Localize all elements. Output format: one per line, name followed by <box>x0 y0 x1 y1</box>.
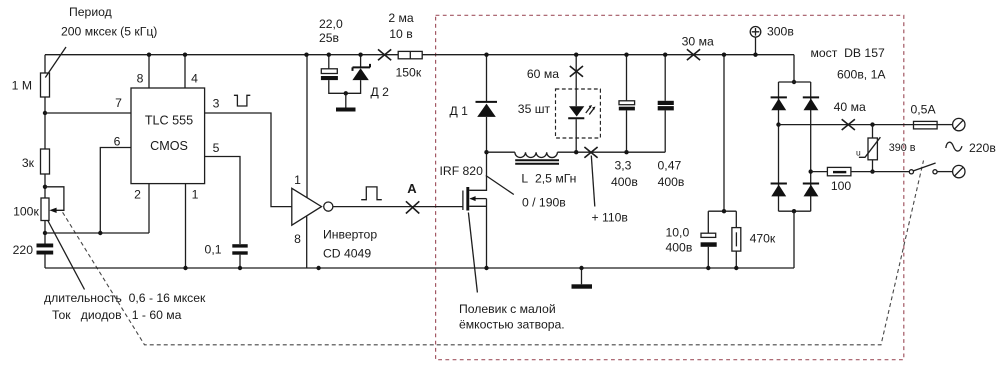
svg-text:3,3: 3,3 <box>615 159 632 173</box>
svg-text:22,0: 22,0 <box>319 17 343 31</box>
svg-text:4: 4 <box>191 72 198 86</box>
wire pin 1 to ground rail <box>185 184 187 268</box>
node varistor bottom <box>870 169 874 173</box>
node pin4 rail junction <box>183 53 187 57</box>
svg-text:6: 6 <box>114 135 121 149</box>
channel bar <box>466 187 469 211</box>
svg-text:TLC 555: TLC 555 <box>145 113 193 127</box>
LED block dashed box <box>556 89 601 138</box>
inverter output bubble <box>324 202 333 211</box>
zener diode D2 <box>360 55 362 68</box>
annotation line 0/190v <box>486 176 514 195</box>
svg-text:8: 8 <box>137 72 144 86</box>
node LED bottom junction <box>574 150 578 154</box>
svg-text:ёмкостью затвора.: ёмкостью затвора. <box>459 318 565 332</box>
svg-text:1: 1 <box>192 188 199 202</box>
wire bridge bottom to ground rail <box>793 211 795 268</box>
resistor R 1M <box>41 73 50 97</box>
wire left branch upper <box>44 55 46 244</box>
node wiper junction <box>43 185 47 189</box>
svg-text:1: 1 <box>294 173 301 187</box>
potentiometer wiper arrowhead <box>49 208 56 213</box>
ground symbol low-voltage <box>345 93 347 107</box>
annotation line +110v <box>591 156 595 207</box>
varistor RU 390v <box>872 125 874 138</box>
X marker node A <box>406 201 419 213</box>
resistor R 470k <box>735 211 737 227</box>
gate bar <box>462 191 464 211</box>
wire lower AC line left <box>811 171 828 173</box>
svg-text:Д 2: Д 2 <box>371 85 390 99</box>
RC snubber branch <box>723 55 725 212</box>
svg-text:100: 100 <box>831 179 852 193</box>
svg-text:2 ма: 2 ма <box>388 11 414 25</box>
node D2/C22 junction <box>344 91 348 95</box>
svg-text:200 мксек (5 кГц): 200 мксек (5 кГц) <box>61 25 157 39</box>
X marker 30ma <box>687 49 700 60</box>
node bridge ac left <box>776 122 780 126</box>
svg-text:35 шт: 35 шт <box>518 102 551 116</box>
svg-text:Полевик с малой: Полевик с малой <box>459 302 556 316</box>
dashed mechanical linkage pot-to-switch <box>63 161 924 345</box>
fuse F1 0,5A <box>914 121 938 128</box>
potentiometer R 100k <box>41 198 49 221</box>
switch S1 <box>909 170 913 174</box>
svg-text:L: L <box>521 172 528 186</box>
wire pin 6 <box>100 148 131 234</box>
svg-text:+ 110в: + 110в <box>592 211 628 225</box>
svg-text:220: 220 <box>13 243 34 257</box>
svg-text:Инвертор: Инвертор <box>323 228 377 242</box>
node stray junction on ground rail <box>316 266 320 270</box>
X marker 110v <box>584 147 597 158</box>
svg-text:10 в: 10 в <box>389 27 412 41</box>
bridge diode upper-right <box>803 96 819 98</box>
wire inverter pin8 to ground rail <box>306 216 308 268</box>
svg-text:40 ма: 40 ма <box>834 100 866 114</box>
bridge diode lower-right <box>803 183 819 185</box>
wire pin 8 <box>148 55 150 88</box>
svg-text:470к: 470к <box>750 232 776 246</box>
wire pot bottom to pin2 <box>45 232 149 234</box>
wire left branch lower <box>44 255 46 269</box>
IC U1 TLC555 <box>131 88 205 184</box>
inductor core lines <box>515 160 559 163</box>
LED D3 string <box>575 55 577 106</box>
wire to switch <box>851 171 909 173</box>
bridge right branch <box>810 82 812 211</box>
wire top rail <box>45 54 794 56</box>
svg-text:длительность 0,6 - 16 мксек: длительность 0,6 - 16 мксек <box>44 291 206 305</box>
annotation line pot duration <box>48 221 85 290</box>
svg-text:150к: 150к <box>396 66 422 80</box>
node source junction <box>484 266 488 270</box>
red dashed block outline <box>436 15 904 359</box>
wire rail to bridge top <box>793 55 795 82</box>
X marker 40ma <box>842 119 855 130</box>
capacitor C 3,3 400v <box>626 55 628 101</box>
wire pin 7 <box>45 112 131 114</box>
wire upper AC line <box>779 124 914 126</box>
capacitor C 0,47 400v <box>664 55 666 101</box>
svg-text:5: 5 <box>213 141 220 155</box>
node cap 0,1 bottom junction <box>238 266 242 270</box>
ground symbol main <box>581 268 583 284</box>
svg-text:0 / 190в: 0 / 190в <box>522 196 566 210</box>
body arrow <box>471 198 487 200</box>
node inverter supply rail junction <box>304 53 308 57</box>
svg-text:30 ма: 30 ма <box>682 35 714 49</box>
wire inverter supply from rail <box>306 55 308 199</box>
svg-text:CMOS: CMOS <box>150 139 188 153</box>
op-amp U2 inverter CD4049 triangle <box>292 188 322 225</box>
svg-text:Период: Период <box>69 5 112 19</box>
svg-text:1 М: 1 М <box>12 79 32 93</box>
svg-text:400в: 400в <box>611 175 638 189</box>
wire pin 4 <box>184 55 186 88</box>
source vertical to ground rail <box>486 199 488 268</box>
svg-text:25в: 25в <box>319 31 339 45</box>
svg-text:мост DB 157: мост DB 157 <box>811 46 885 60</box>
svg-text:IRF 820: IRF 820 <box>440 164 484 178</box>
node pin1 junction <box>183 266 187 270</box>
wire fuse to terminal <box>937 124 952 126</box>
svg-text:u: u <box>856 148 861 158</box>
node pin6 junction <box>98 231 102 235</box>
svg-text:2,5 мГн: 2,5 мГн <box>535 172 576 186</box>
source wire <box>469 205 486 207</box>
wire pin 5 to cap 0,1 <box>205 157 240 245</box>
svg-text:А: А <box>407 181 417 196</box>
bridge diode lower-left <box>771 183 787 185</box>
node drain junction <box>484 150 488 154</box>
terminal lower <box>953 165 965 177</box>
capacitor C 220 <box>37 244 54 248</box>
wire wiper to pot <box>45 187 64 211</box>
bridge left branch <box>778 82 780 211</box>
svg-text:0,47: 0,47 <box>658 159 682 173</box>
wire pin 2 <box>148 184 150 233</box>
svg-text:60 ма: 60 ма <box>527 67 559 81</box>
node bridge ac right <box>809 169 813 173</box>
plus supply symbol 300v <box>750 27 761 38</box>
resistor R 150k <box>398 51 422 58</box>
inductor L 2,5mH <box>487 151 515 153</box>
node pin7 junction <box>43 111 47 115</box>
svg-text:0,1: 0,1 <box>205 243 222 257</box>
waveform negative pulse glyph <box>234 95 250 106</box>
svg-text:3к: 3к <box>22 156 35 170</box>
svg-text:3: 3 <box>213 97 220 111</box>
svg-text:390 в: 390 в <box>889 142 916 154</box>
svg-text:8: 8 <box>294 232 301 246</box>
svg-text:2: 2 <box>134 188 141 202</box>
annotation line mosfet note <box>468 213 477 293</box>
X marker 60ma <box>570 66 583 77</box>
wire bottom rail <box>45 267 794 269</box>
svg-text:Ток диодов 1 - 60 ма: Ток диодов 1 - 60 ма <box>52 308 182 322</box>
resistor R 3k <box>41 149 50 174</box>
LED emission arrows <box>586 107 594 114</box>
bridge diode upper-left <box>771 96 787 98</box>
svg-text:300в: 300в <box>767 25 794 39</box>
node pot bottom junction <box>43 231 47 235</box>
annotation line period-to-R1M <box>45 47 66 78</box>
resistor R 100 <box>827 167 851 175</box>
wire pin 3 to inverter <box>205 113 292 207</box>
X marker 2ma <box>378 49 391 60</box>
svg-text:CD 4049: CD 4049 <box>323 247 371 261</box>
AC sine symbol <box>946 142 962 151</box>
svg-text:220в: 220в <box>969 141 996 155</box>
svg-text:Д 1: Д 1 <box>450 104 469 118</box>
svg-text:400в: 400в <box>658 175 685 189</box>
node pin8 rail junction <box>147 53 151 57</box>
capacitor C 10,0 400v <box>707 211 709 233</box>
terminal upper <box>953 118 965 130</box>
svg-text:7: 7 <box>115 96 122 110</box>
svg-text:100к: 100к <box>13 205 39 219</box>
node varistor top <box>870 122 874 126</box>
capacitor C 22,0 25v <box>328 55 330 69</box>
svg-text:0,5A: 0,5A <box>911 103 937 117</box>
drain wire <box>469 152 486 190</box>
wire inverter output to gate <box>333 206 463 208</box>
svg-text:10,0: 10,0 <box>666 226 690 240</box>
capacitor C 0,1 <box>232 244 247 247</box>
svg-text:400в: 400в <box>666 241 693 255</box>
waveform positive pulse glyph <box>361 187 382 200</box>
diode D1 <box>486 55 488 101</box>
svg-text:600в, 1А: 600в, 1А <box>837 68 886 82</box>
